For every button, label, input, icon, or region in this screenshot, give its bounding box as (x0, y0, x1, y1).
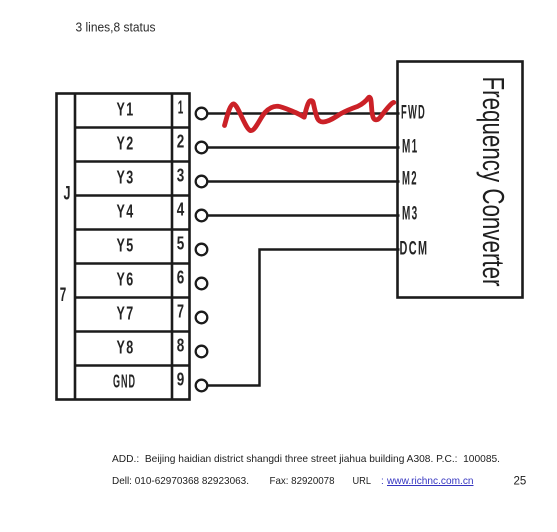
svg-text:1: 1 (178, 97, 184, 118)
svg-text:9: 9 (177, 369, 185, 390)
svg-text::: : (381, 476, 384, 487)
svg-text:Y5: Y5 (117, 235, 135, 256)
svg-text:Fax: 82920078: Fax: 82920078 (270, 476, 335, 487)
svg-text:J: J (64, 184, 71, 205)
svg-text:M3: M3 (402, 203, 419, 224)
svg-text:5: 5 (177, 233, 185, 254)
svg-text:Dell: 010-62970368 82923063.: Dell: 010-62970368 82923063. (112, 476, 249, 487)
svg-text:25: 25 (514, 476, 527, 488)
svg-text:Y8: Y8 (117, 337, 135, 358)
svg-text:URL: URL (353, 476, 372, 487)
svg-text:6: 6 (177, 267, 185, 288)
svg-text:3 lines,8 status: 3 lines,8 status (76, 20, 156, 35)
svg-text:www.richnc.com.cn: www.richnc.com.cn (386, 476, 474, 487)
svg-text:ADD.: Beijing haidian distric: ADD.: Beijing haidian district shangdi t… (112, 454, 500, 465)
svg-text:7: 7 (60, 285, 67, 306)
svg-text:Y4: Y4 (117, 201, 135, 222)
svg-text:Y2: Y2 (117, 133, 135, 154)
svg-text:Y1: Y1 (117, 99, 135, 120)
svg-text:8: 8 (177, 335, 185, 356)
svg-text:Y3: Y3 (117, 167, 135, 188)
svg-text:M2: M2 (402, 168, 418, 189)
svg-text:M1: M1 (402, 137, 419, 158)
svg-text:FWD: FWD (401, 103, 426, 124)
svg-text:3: 3 (177, 165, 185, 186)
svg-text:Frequency Converter: Frequency Converter (476, 77, 511, 287)
svg-text:DCM: DCM (400, 238, 429, 259)
svg-text:7: 7 (177, 301, 184, 322)
svg-text:Y7: Y7 (117, 303, 135, 324)
svg-text:2: 2 (177, 131, 185, 152)
svg-text:4: 4 (177, 199, 185, 220)
svg-text:Y6: Y6 (117, 269, 135, 290)
svg-text:GND: GND (113, 371, 136, 392)
